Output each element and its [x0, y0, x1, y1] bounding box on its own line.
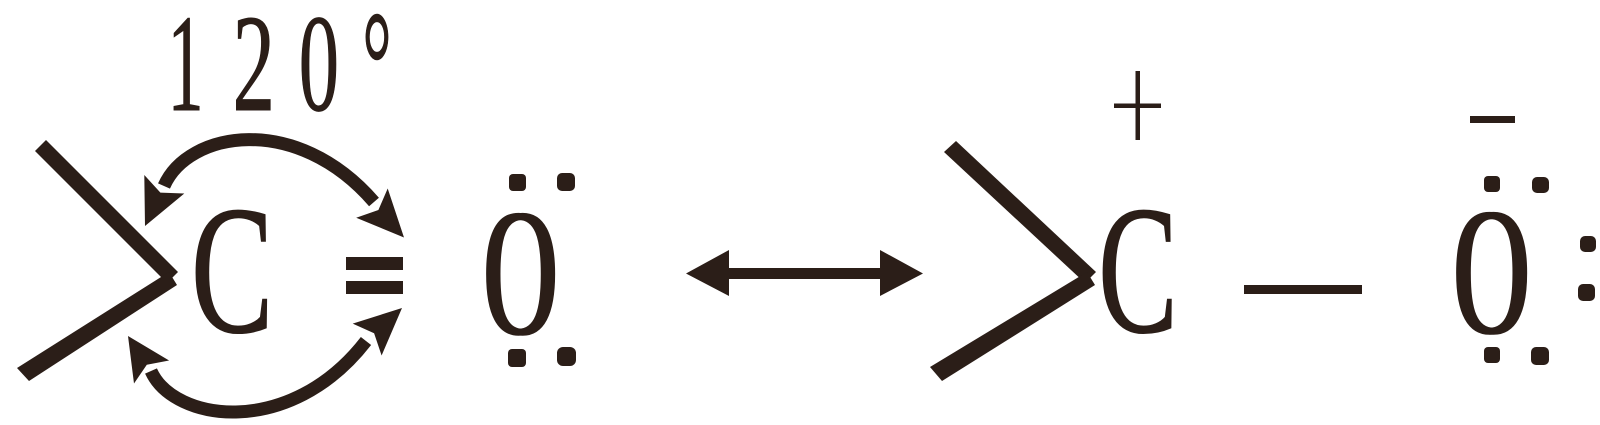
svg-text:°: ° — [362, 0, 391, 147]
bond lower-left to C (left structure) — [17, 272, 177, 381]
lone pair dot bottom-right (right O) — [1531, 347, 1549, 365]
lone pair dot right-top (right O) — [1580, 236, 1596, 252]
lone pair dot bottom-left (right O) — [1484, 347, 1500, 363]
lone pair dot right-bottom (right O) — [1578, 284, 1595, 301]
plus charge horizontal bar — [1114, 104, 1161, 109]
oxygen O (left) — [482, 172, 559, 375]
lone pair dot top-left (left O) — [509, 174, 526, 191]
svg-text:0: 0 — [299, 0, 339, 141]
curved arrow bottom (arc) — [151, 341, 366, 412]
svg-text:O: O — [1456, 171, 1532, 374]
lone pair dot top-right (left O) — [557, 173, 575, 191]
bond lower-left to C (right structure) — [930, 272, 1095, 381]
carbon C (left) — [191, 169, 273, 372]
lone pair dot top-right (right O) — [1532, 177, 1549, 193]
lone pair dot bottom-right (left O) — [557, 347, 576, 366]
angle label 120° — [167, 0, 203, 140]
svg-text:O: O — [486, 172, 559, 375]
plus charge vertical bar — [1136, 71, 1141, 140]
svg-text:C: C — [191, 169, 273, 372]
double bond C=O upper bar — [346, 257, 403, 270]
bond upper-left to C (right structure) — [944, 141, 1096, 283]
svg-text:C: C — [1098, 169, 1178, 372]
curved arrow bottom right head — [353, 308, 402, 356]
lone pair dot bottom-left (left O) — [508, 349, 526, 367]
svg-text:2: 2 — [233, 0, 275, 140]
minus charge — [1470, 116, 1515, 123]
single bond C-O — [1244, 285, 1362, 294]
svg-text:1: 1 — [167, 0, 203, 140]
curved arrow top right head — [356, 189, 404, 238]
resonance double-headed arrow — [686, 250, 923, 296]
double bond C=O lower bar — [346, 281, 403, 294]
oxygen O (right) — [1452, 171, 1532, 374]
bond upper-left to C (left structure) — [35, 140, 178, 283]
curved arrow bottom left head — [128, 336, 169, 384]
lone pair dot top-left (right O) — [1484, 176, 1500, 192]
curved arrow top (arc) — [164, 140, 374, 202]
carbon C (right) — [1098, 169, 1178, 372]
curved arrow top left head — [144, 175, 184, 226]
